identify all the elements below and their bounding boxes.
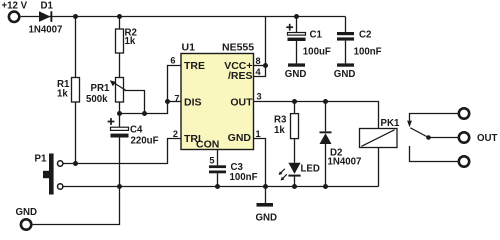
svg-text:1N4007: 1N4007 [29,25,63,36]
wire pin 3 OUT rail to relay [254,102,379,129]
svg-text:100nF: 100nF [230,172,258,183]
ground symbol under C1 [288,63,305,66]
wire C2 bottom to GND symbol [345,41,347,64]
node pin 7 join [165,99,170,104]
terminal +12V [9,12,19,22]
wire C3 bottom [217,173,219,186]
relay contact lever [410,128,428,138]
svg-text:100nF: 100nF [354,46,382,57]
potentiometer PR1 [110,78,126,103]
svg-text:OUT: OUT [230,97,253,109]
svg-text:3: 3 [257,92,262,102]
svg-text:NE555: NE555 [222,42,254,54]
node C4 bottom rail [117,184,122,189]
capacitor C4 220uF electrolytic [108,118,129,137]
svg-text:4: 4 [256,67,262,77]
wire switch bottom contact [410,146,458,162]
capacitor C3 100nF [209,165,226,173]
svg-text:GND: GND [285,69,307,80]
LED [279,163,301,181]
svg-text:U1: U1 [182,42,196,54]
svg-text:C1: C1 [310,30,323,41]
svg-text:C4: C4 [130,125,143,136]
svg-text:GND: GND [334,69,356,80]
node switch common [426,135,431,140]
svg-text:500k: 500k [86,94,108,105]
diode D1 1N4007 [39,11,52,22]
svg-text:PR1: PR1 [91,83,110,94]
node D2 top [323,99,328,104]
wire C1 top [296,17,298,33]
wire R1 top [75,17,77,78]
svg-text:8: 8 [256,56,261,66]
node C1 top rail [294,14,299,19]
wire node row to pins 6-7 [120,66,182,114]
pushbutton P1 [43,154,63,195]
wire PR1 wiper to node [125,91,145,114]
terminal OUT middle [459,132,469,142]
wire C2 drop from rail [345,17,347,33]
wire P1 top contact row to pin 2 [63,139,181,164]
wire pin 7 stub [168,101,182,103]
node D2 bottom rail [323,184,328,189]
svg-text:1: 1 [256,129,261,139]
svg-text:100uF: 100uF [303,46,331,57]
wire LED bottom [294,177,296,187]
svg-text:C2: C2 [359,30,371,41]
svg-text:PK1: PK1 [381,118,400,129]
capacitor C1 100uF electrolytic [286,24,305,41]
wire D2 bottom [325,144,327,187]
terminal GND bottom left [21,219,31,229]
wire switch top contact [410,114,458,121]
ground symbol under C2 [337,63,354,66]
svg-text:OUT: OUT [477,133,498,144]
svg-text:1N4007: 1N4007 [328,157,362,168]
wire R1 bottom to P1 row [75,102,77,164]
terminal OUT top [459,108,469,118]
svg-text:GND: GND [256,213,278,224]
resistor R3 [291,114,299,139]
wire pin 1 to GND symbol [254,139,266,204]
wire switch common to OUT terminal [429,137,458,139]
node R1 top rail [73,14,78,19]
svg-text:2: 2 [173,129,178,139]
node LED bottom rail [292,184,297,189]
node R3 top [292,99,297,104]
node pin1 bottom rail [263,184,268,189]
ground symbol under pin 1 [257,203,274,207]
op-amp U1 NE555 body [181,54,254,150]
node VCC pins 8-4 [263,63,268,68]
wire R3 bottom to LED [294,139,296,163]
node R2 top rail [117,14,122,19]
diode D2 1N4007 [320,131,332,144]
svg-text:6: 6 [170,56,175,66]
svg-text:7: 7 [174,93,179,103]
wire C4 top [119,114,121,128]
node C3 bottom rail [215,184,220,189]
resistor R1 [72,78,80,103]
svg-text:DIS: DIS [184,97,202,109]
wire VCC column to top rail [265,17,267,66]
svg-text:/RES: /RES [228,70,253,82]
svg-text:R3: R3 [274,115,287,126]
svg-text:5: 5 [209,156,214,166]
relay PK1 [360,129,398,148]
svg-text:TRE: TRE [184,60,205,72]
svg-text:220uF: 220uF [131,136,159,147]
svg-text:LED: LED [301,164,320,175]
wire D2 top [325,102,327,132]
capacitor C2 100nF [337,32,354,41]
svg-text:GND: GND [228,132,252,144]
wire pin 4 stub [254,66,266,77]
svg-text:D1: D1 [41,1,54,12]
node PR1 bottom [117,111,122,116]
wire R2 bottom to PR1 top [119,53,121,78]
svg-text:1k: 1k [125,36,136,47]
wire bottom rail [63,186,379,188]
wire C1 bottom to GND symbol [296,41,298,63]
wire pin 5 to C3 [217,150,219,166]
wire pin 8 stub [254,65,266,67]
wire R2 top [119,17,121,30]
wire C4 bottom to bottom rail and GND terminal [33,138,120,225]
svg-text:+12 V: +12 V [2,1,28,12]
svg-text:1k: 1k [57,89,68,100]
svg-text:P1: P1 [35,154,47,165]
relay contact arrow [407,121,412,128]
wire PR1 bottom to node [119,102,121,114]
svg-text:1k: 1k [274,125,285,136]
terminal OUT bottom [459,156,469,166]
resistor R2 [116,29,124,53]
wire relay bottom [378,148,380,187]
svg-text:CON: CON [196,139,219,151]
wire top rail +12V [21,16,346,18]
node R1 to P1 row [73,161,78,166]
wire R3 top [294,102,296,114]
node wiper join [142,111,147,116]
svg-text:GND: GND [16,207,38,218]
